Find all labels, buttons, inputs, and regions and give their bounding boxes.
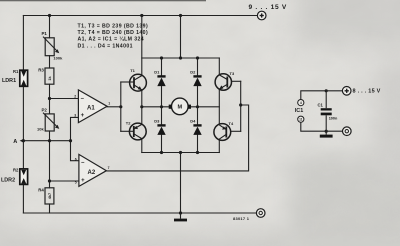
wire pin4 to plus terminal: [301, 91, 343, 100]
resistor R3: [38, 68, 54, 85]
junction D2 top row: [196, 56, 199, 59]
diode D4: [190, 118, 201, 135]
diode D2: [190, 69, 201, 86]
top scan line: [0, 0, 206, 1]
transistor T3: [215, 71, 235, 90]
junction C1 bottom: [325, 130, 328, 133]
junction A1 output base line: [119, 105, 122, 108]
junction P2 node A: [48, 139, 51, 142]
svg-text:3: 3: [74, 113, 76, 117]
IC1 power sub-circuit: [301, 91, 343, 135]
svg-text:100n: 100n: [329, 116, 338, 120]
terminal +8..15V: [342, 87, 351, 96]
svg-text:4: 4: [300, 101, 302, 105]
svg-text:7: 7: [108, 166, 110, 170]
svg-text:IC1: IC1: [295, 108, 303, 114]
wire A2 inverting input: [71, 141, 79, 161]
wire T3 collector: [218, 58, 220, 74]
node A arrow: [20, 139, 24, 143]
diode D1: [154, 69, 165, 86]
svg-text:A1, A2 = IC1 = ¼LM 324: A1, A2 = IC1 = ¼LM 324: [78, 36, 145, 43]
svg-text:D3: D3: [154, 118, 160, 123]
svg-text:100k: 100k: [53, 56, 63, 61]
node A line: [23, 140, 70, 142]
wire diode column D1 D3: [161, 58, 163, 75]
wire LDR chain vertical: [22, 16, 24, 71]
svg-text:D1 . . . D4 = 1N4001: D1 . . . D4 = 1N4001: [78, 44, 133, 50]
svg-text:T1: T1: [130, 68, 135, 73]
op-amp A2: [75, 154, 110, 186]
svg-text:R2: R2: [13, 168, 19, 173]
svg-text:LDR1: LDR1: [2, 78, 16, 84]
wire A1 non-inverting input: [71, 117, 79, 140]
diode D3: [154, 118, 165, 135]
wire pot chain vertical: [49, 16, 51, 38]
wire top rail: [23, 15, 257, 17]
IC1 pin 11: [298, 116, 304, 122]
wire T4 collector: [218, 140, 220, 152]
svg-text:6: 6: [75, 158, 77, 162]
transistor T2: [126, 121, 146, 140]
svg-text:R3: R3: [38, 68, 44, 73]
parts list text: [78, 23, 149, 49]
svg-text:9 . . . 15 V: 9 . . . 15 V: [249, 4, 287, 11]
svg-text:8 . . . 15 V: 8 . . . 15 V: [353, 89, 381, 95]
capacitor C1: [318, 103, 339, 121]
wire A1 inverting input: [50, 98, 79, 100]
wire T2 collector: [141, 140, 143, 153]
transistor T1: [130, 68, 147, 91]
svg-text:M: M: [177, 105, 182, 111]
svg-text:5: 5: [75, 181, 77, 185]
junction motor left node: [140, 105, 143, 108]
ground: [174, 213, 187, 221]
svg-text:A1: A1: [87, 106, 95, 112]
ground C1: [320, 135, 333, 138]
wire centre column top: [180, 16, 182, 59]
wire motor row right: [188, 106, 219, 108]
op-amp A1: [74, 90, 110, 123]
svg-text:P2: P2: [42, 108, 48, 113]
LDR R1: [2, 69, 28, 86]
terminal minus right: [343, 127, 352, 136]
junction C1 top: [325, 89, 328, 92]
svg-text:P1: P1: [42, 31, 48, 36]
wire T4 base: [231, 130, 241, 132]
wire right base line: [240, 81, 242, 131]
junction D3 bottom row: [160, 151, 163, 154]
resistor R4: [38, 187, 54, 204]
junction centre bottom row: [179, 151, 182, 154]
svg-text:1: 1: [108, 102, 110, 106]
wire left base line: [120, 82, 122, 131]
junction LDR divider node A: [22, 139, 25, 142]
svg-text:T2: T2: [126, 121, 131, 126]
svg-text:T3: T3: [230, 71, 235, 76]
svg-text:83017 1: 83017 1: [233, 216, 250, 221]
terminal +9..15V: [257, 11, 266, 20]
svg-text:T1, T3 = BD 239 (BD 139): T1, T3 = BD 239 (BD 139): [78, 23, 149, 29]
junction D2 D4 motor row: [196, 105, 199, 108]
terminal bottom rail: [256, 209, 265, 218]
svg-text:D1: D1: [154, 69, 160, 74]
junction centre column rail: [179, 14, 182, 17]
transistor T4: [214, 121, 234, 140]
junction D1 top row: [160, 56, 163, 59]
svg-text:C1: C1: [318, 103, 324, 108]
svg-text:D4: D4: [190, 118, 196, 123]
wire T3 base: [232, 80, 241, 82]
wire pin11 down: [301, 122, 343, 131]
junction ground rail: [179, 211, 182, 214]
svg-text:R1: R1: [13, 69, 19, 74]
svg-text:10k: 10k: [37, 127, 44, 132]
junction D4 bottom row: [196, 151, 199, 154]
wire C1 column: [325, 91, 327, 108]
svg-text:A2: A2: [88, 170, 96, 176]
potentiometer P2: [37, 108, 59, 132]
svg-text:T4: T4: [229, 121, 234, 126]
junction D1 D3 motor row: [160, 105, 163, 108]
junction P1 top rail: [48, 14, 51, 17]
svg-text:A: A: [13, 139, 17, 145]
wire A1 output: [107, 106, 121, 108]
wire T1 collector: [141, 16, 143, 75]
wire diode column D2 D4: [197, 58, 199, 75]
motor M: [169, 98, 191, 115]
svg-text:D2: D2: [190, 69, 196, 74]
LDR R2: [1, 168, 28, 185]
svg-text:2: 2: [74, 94, 76, 98]
junction R4 top: [48, 179, 51, 182]
svg-text:T2, T4 = BD 240 (BD 140): T2, T4 = BD 240 (BD 140): [78, 30, 149, 36]
wire bridge bottom row: [142, 152, 220, 154]
junction A2 output base line: [239, 103, 242, 106]
svg-text:11: 11: [299, 118, 303, 122]
wire A2 non-inverting input: [50, 180, 79, 182]
wire motor row left: [142, 106, 172, 108]
wire A2 output to bases: [106, 105, 248, 171]
junction centre top row: [179, 56, 182, 59]
svg-text:+: +: [81, 113, 85, 119]
wire T1 emitter / T2 emitter: [141, 91, 143, 123]
svg-text:LDR2: LDR2: [1, 178, 15, 184]
svg-text:+: +: [81, 178, 85, 184]
wire bridge top row: [142, 57, 220, 59]
junction R3 P2: [48, 97, 51, 100]
junction node A op-amp inputs: [69, 139, 72, 142]
potentiometer P1: [42, 31, 64, 61]
junction T1 collector rail: [140, 14, 143, 17]
IC1 pin 4: [298, 100, 304, 106]
wire bottom rail: [23, 212, 256, 214]
wire centre column bottom: [180, 153, 182, 214]
svg-text:R4: R4: [38, 187, 44, 192]
svg-text:4k7: 4k7: [48, 193, 52, 199]
wire T3 emitter / T4 emitter: [218, 90, 220, 123]
